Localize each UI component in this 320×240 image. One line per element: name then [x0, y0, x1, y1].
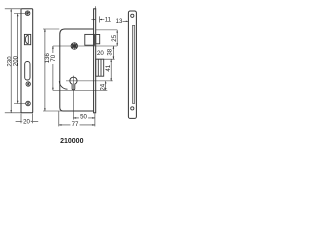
deadbolt side view [96, 59, 104, 76]
svg-text:41: 41 [105, 64, 112, 71]
text 70 [50, 54, 57, 64]
deadbolt top line [96, 58, 115, 60]
svg-text:50: 50 [80, 114, 87, 121]
svg-text:11: 11 [105, 17, 112, 24]
screw hole top [25, 11, 30, 16]
dim 11 top [95, 6, 99, 22]
bottom extension lines [59, 111, 95, 126]
text 50 [79, 113, 88, 121]
svg-text:20: 20 [23, 118, 30, 125]
euro cylinder profile [70, 77, 77, 90]
dim 13 leader [123, 20, 129, 22]
svg-text:20: 20 [97, 50, 104, 57]
hub follower [71, 42, 78, 49]
dim 50 bottom [73, 117, 95, 119]
dim 230 extension lines [5, 9, 21, 113]
dim 24 right [105, 81, 107, 90]
latchbolt face [25, 35, 28, 44]
strike plate inner fold [133, 25, 135, 103]
latch side view [85, 34, 95, 45]
cylinder centerline horizontal [66, 80, 113, 82]
dim 25 right [96, 29, 117, 31]
latch cutout [24, 34, 30, 44]
svg-text:38: 38 [106, 48, 113, 55]
dim 38 right [112, 46, 114, 59]
dim 77 bottom [59, 124, 95, 126]
dim 136 line [43, 29, 63, 111]
svg-text:70: 70 [50, 54, 57, 61]
dim 41 right [110, 59, 112, 81]
text 77 [70, 120, 79, 128]
strike hole bottom [131, 107, 134, 110]
dim 200 extension lines [14, 14, 26, 104]
dim 230 line [10, 9, 12, 113]
dim 20 bottom of faceplate [21, 114, 33, 124]
faceplate front view outline [21, 9, 33, 113]
text 20 faceplate [22, 117, 31, 125]
svg-text:25: 25 [111, 34, 118, 41]
lock body outline [60, 29, 94, 111]
cylinder bottom line [53, 89, 107, 91]
dim 70 line [52, 46, 54, 90]
faceplate side view [94, 9, 96, 113]
svg-text:13: 13 [116, 18, 123, 25]
deadbolt cutout [25, 62, 30, 81]
dim 200 line [17, 14, 19, 104]
screw hole middle [26, 82, 30, 86]
mechanism arc [59, 81, 67, 89]
svg-text:77: 77 [72, 121, 79, 128]
svg-text:200: 200 [13, 55, 20, 66]
cylinder centerline vertical [72, 76, 74, 120]
strike plate [128, 11, 136, 118]
hub centerline [53, 45, 117, 47]
svg-text:24: 24 [99, 83, 106, 90]
strike hole top [131, 14, 134, 17]
svg-text:210000: 210000 [60, 138, 83, 145]
screw hole bottom [26, 101, 31, 106]
